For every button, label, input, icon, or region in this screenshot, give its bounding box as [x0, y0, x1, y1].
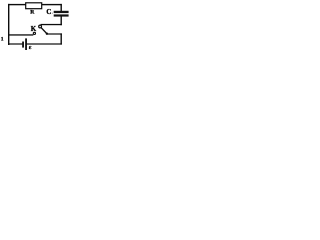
switch K blade [41, 28, 47, 34]
svg-text:ε: ε [29, 44, 32, 51]
svg-text:R: R [30, 9, 35, 15]
wire: top horizontal [8, 4, 62, 5]
wire: upper switch horizontal [41, 24, 62, 25]
capacitor C1 top plate [54, 11, 69, 13]
wire: bottom horizontal left segment (to battery) [9, 43, 23, 44]
label C period dot [52, 13, 53, 14]
switch K upper terminal circle [39, 25, 42, 28]
switch K lower terminal circle [33, 32, 35, 34]
wire: lower-right vertical (down to bottom wire) [61, 33, 62, 44]
wire: top-right vertical (to capacitor) [61, 4, 62, 11]
battery B1 short plate (negative) [22, 42, 24, 48]
battery B1 long plate (positive) [25, 38, 27, 50]
wire: lower-left switch branch horizontal [9, 34, 34, 35]
wire: bottom horizontal right segment (battery to corner) [27, 43, 62, 44]
switch K junction dot [46, 33, 48, 35]
resistor R1 box [26, 3, 42, 9]
svg-text:1: 1 [1, 37, 4, 43]
svg-text:K: K [31, 25, 37, 33]
wire: left vertical [8, 4, 9, 45]
svg-text:C: C [46, 9, 51, 16]
wire: mid-right vertical (capacitor to switch wire) [61, 16, 62, 25]
wire: lower-right horizontal (switch to right vertical) [47, 33, 62, 34]
capacitor C1 bottom plate [54, 14, 69, 16]
